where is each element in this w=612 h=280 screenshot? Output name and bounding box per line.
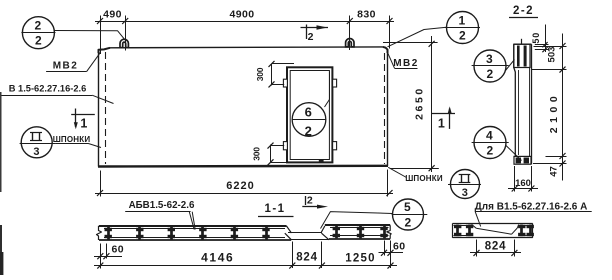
svg-text:2: 2 [459,29,466,43]
svg-text:2: 2 [486,67,493,81]
svg-text:4146: 4146 [201,251,234,265]
svg-text:300: 300 [252,147,262,161]
svg-text:503: 503 [547,47,558,63]
svg-text:МВ2: МВ2 [53,61,79,72]
svg-text:1: 1 [438,117,445,131]
svg-text:60: 60 [393,241,405,253]
svg-text:490: 490 [103,9,122,21]
svg-text:1: 1 [80,117,87,131]
svg-text:6: 6 [305,105,313,120]
svg-text:3: 3 [33,146,40,158]
svg-text:4: 4 [486,129,493,143]
svg-text:ШПОНКИ: ШПОНКИ [405,174,443,183]
svg-text:2: 2 [305,124,313,139]
svg-text:3: 3 [462,187,469,199]
svg-text:2: 2 [34,19,41,33]
svg-text:2: 2 [308,31,314,43]
svg-text:2: 2 [35,34,42,48]
svg-text:В 1.5-62.27.16-2.6: В 1.5-62.27.16-2.6 [9,84,87,94]
svg-text:50: 50 [531,32,541,44]
svg-text:2: 2 [307,195,313,207]
svg-text:Для В1.5-62.27.16-2.6 А: Для В1.5-62.27.16-2.6 А [475,202,588,213]
svg-text:1250: 1250 [345,253,375,265]
svg-text:830: 830 [357,9,376,21]
svg-text:1-1: 1-1 [264,203,285,215]
svg-text:АБВ1.5-62-2.6: АБВ1.5-62-2.6 [129,200,195,211]
svg-text:4900: 4900 [230,9,255,21]
svg-text:3: 3 [486,52,493,66]
svg-text:1: 1 [458,14,465,28]
svg-text:824: 824 [485,241,507,253]
svg-text:МВ2: МВ2 [393,58,419,69]
svg-text:47: 47 [549,166,560,177]
svg-text:160: 160 [515,178,531,189]
svg-text:824: 824 [296,252,318,264]
svg-text:ШПОНКИ: ШПОНКИ [53,135,91,144]
svg-text:2100: 2100 [548,92,560,133]
svg-text:2: 2 [486,144,493,158]
svg-text:60: 60 [112,244,124,256]
svg-text:6220: 6220 [226,180,254,192]
svg-text:2: 2 [404,216,411,230]
svg-text:5: 5 [404,200,411,214]
svg-text:2-2: 2-2 [513,5,534,17]
svg-text:2650: 2650 [414,86,426,120]
svg-text:300: 300 [255,67,265,81]
